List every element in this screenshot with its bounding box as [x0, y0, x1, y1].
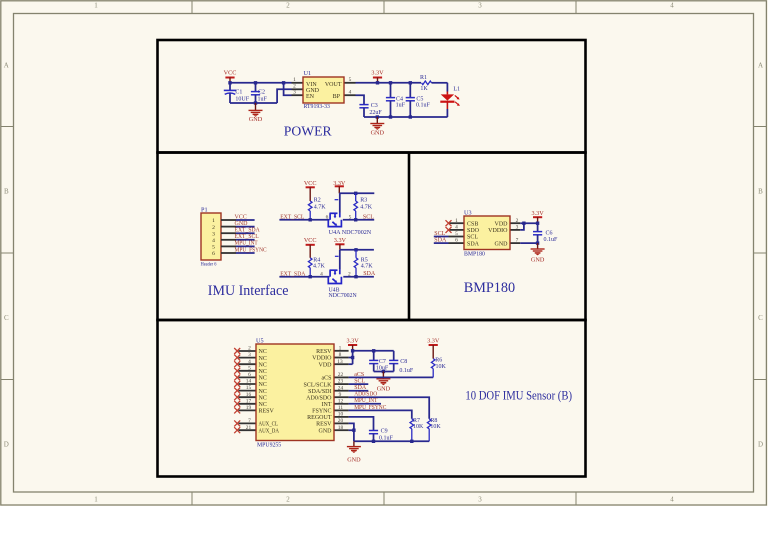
node gnd stem caps	[382, 370, 385, 373]
wire gate drop U4A	[339, 193, 341, 212]
svg-text:23: 23	[338, 379, 344, 385]
svg-text:NC: NC	[259, 402, 267, 408]
svg-text:0.1uF: 0.1uF	[416, 103, 431, 109]
svg-text:GND: GND	[531, 257, 545, 264]
svg-text:2: 2	[248, 346, 251, 352]
divider between IMU Interface and BMP180	[408, 153, 411, 321]
svg-text:24: 24	[338, 385, 344, 391]
no-connect X marks U5 left pins	[234, 348, 240, 433]
svg-text:9: 9	[339, 392, 342, 398]
svg-text:10UF: 10UF	[235, 96, 249, 102]
power port 3.3V R6	[427, 338, 440, 359]
svg-text:C3: C3	[371, 103, 378, 109]
wire SCL	[343, 219, 374, 221]
svg-text:1K: 1K	[420, 86, 428, 92]
svg-text:0.1uF: 0.1uF	[544, 237, 559, 243]
node GND BMP	[536, 241, 539, 244]
resistor R7 10K	[410, 418, 424, 442]
capacitor C4 1uF	[386, 83, 406, 117]
node R3 bottom	[354, 218, 357, 221]
ground POWER right	[370, 117, 384, 136]
label U4B	[329, 287, 358, 299]
svg-text:5: 5	[349, 214, 352, 220]
svg-text:BP: BP	[333, 94, 341, 100]
svg-text:AD0/SDO: AD0/SDO	[306, 395, 332, 401]
wire GND pin branch	[277, 89, 291, 103]
resistor R4 4.7K	[308, 257, 325, 276]
node C5 bottom	[409, 115, 412, 118]
svg-text:6: 6	[455, 238, 458, 244]
svg-text:C: C	[758, 314, 763, 322]
regulator U1 RT9193-33	[292, 70, 356, 110]
node C4 top	[389, 81, 392, 84]
svg-text:GND: GND	[495, 241, 509, 247]
power port 3.3V lower	[334, 237, 347, 250]
wire SCL BMP	[434, 236, 449, 238]
svg-text:R3: R3	[360, 197, 367, 203]
svg-text:2: 2	[286, 2, 290, 10]
svg-text:15: 15	[246, 385, 252, 391]
svg-text:3: 3	[212, 231, 215, 237]
svg-text:C6: C6	[546, 230, 553, 236]
power port 3.3V upper	[333, 180, 346, 193]
svg-text:3: 3	[293, 90, 296, 96]
chip U3 BMP180	[449, 209, 521, 257]
wire VDDIO join	[520, 223, 524, 230]
svg-text:NDC7002N: NDC7002N	[329, 293, 358, 299]
svg-text:NC: NC	[259, 389, 267, 395]
svg-text:MPU_INT: MPU_INT	[354, 398, 377, 404]
svg-text:6: 6	[212, 251, 215, 257]
node R2 bottom	[309, 218, 312, 221]
power port VCC	[224, 70, 237, 83]
svg-text:3: 3	[478, 496, 482, 504]
svg-text:VCC: VCC	[304, 237, 317, 244]
svg-text:1uF: 1uF	[258, 96, 268, 102]
power port VCC upper	[304, 180, 317, 201]
svg-text:A: A	[758, 62, 763, 70]
svg-text:4: 4	[349, 90, 352, 96]
header P1 Header 6	[201, 206, 236, 267]
svg-text:4: 4	[455, 225, 458, 231]
capacitor C9 0.1uF	[369, 429, 394, 442]
svg-text:10K: 10K	[413, 424, 424, 430]
power port VCC lower	[304, 237, 317, 258]
svg-text:MPU_INT: MPU_INT	[235, 241, 258, 247]
resistor R8 10K	[427, 418, 441, 442]
wire MPU_INT stub	[349, 403, 381, 405]
svg-text:EXT_SCL: EXT_SCL	[280, 214, 305, 220]
svg-text:RESV: RESV	[316, 422, 332, 428]
svg-text:BMP180: BMP180	[464, 280, 516, 296]
svg-text:4.7K: 4.7K	[361, 263, 374, 269]
capacitor C8 0.1uF	[389, 351, 414, 374]
transistor U4B NDC7002N	[328, 269, 341, 283]
svg-text:aCS: aCS	[354, 372, 364, 378]
svg-text:B: B	[4, 188, 9, 196]
ground BMP	[531, 243, 545, 263]
svg-text:EN: EN	[306, 94, 315, 100]
svg-text:NC: NC	[259, 395, 267, 401]
node GND stem	[376, 115, 379, 118]
svg-text:1: 1	[455, 218, 458, 224]
node C9 bottom	[372, 440, 375, 443]
middle block outline	[158, 153, 586, 321]
svg-text:4: 4	[212, 238, 215, 244]
wire VDD to 3.3V	[520, 222, 537, 224]
svg-text:AD0/SDO: AD0/SDO	[354, 392, 378, 398]
svg-text:C7: C7	[379, 359, 386, 365]
svg-text:3.3V: 3.3V	[427, 338, 440, 345]
resistor R2 4.7K	[308, 197, 326, 219]
svg-text:MPU9255: MPU9255	[257, 443, 281, 449]
wire SDA	[343, 276, 374, 278]
no-connect X pin 4	[446, 227, 452, 233]
wire MPU_FSYNC to R7	[349, 410, 412, 418]
svg-text:GND: GND	[377, 385, 391, 392]
svg-text:NC: NC	[259, 356, 267, 362]
svg-text:SDA/SDI: SDA/SDI	[308, 389, 331, 395]
svg-text:2: 2	[348, 271, 351, 277]
svg-text:VDDIO: VDDIO	[312, 356, 332, 362]
svg-text:22uF: 22uF	[369, 110, 382, 116]
svg-text:VDD: VDD	[319, 362, 333, 368]
wire 3.3V rail lower	[340, 249, 374, 251]
svg-text:SCL: SCL	[467, 235, 478, 241]
svg-text:3: 3	[248, 352, 251, 358]
transistor U4A NDC7002N	[328, 213, 341, 227]
svg-text:3.3V: 3.3V	[531, 210, 544, 217]
svg-text:U3: U3	[464, 209, 472, 216]
node pin8	[351, 356, 354, 359]
svg-text:10K: 10K	[436, 364, 447, 370]
node C2 top	[254, 81, 257, 84]
svg-text:U4A NDC7002N: U4A NDC7002N	[329, 230, 372, 236]
svg-text:GND: GND	[347, 457, 361, 464]
node R4 bottom	[309, 275, 312, 278]
svg-text:D: D	[758, 441, 763, 449]
svg-text:22: 22	[338, 372, 344, 378]
svg-text:VCC: VCC	[304, 180, 317, 187]
svg-text:3: 3	[516, 225, 519, 231]
svg-text:C8: C8	[400, 359, 407, 365]
capacitor C3 22uF on BP	[356, 95, 383, 117]
wire SDA BMP	[434, 242, 449, 244]
ground caps U5	[376, 372, 390, 393]
capacitor C7 10uF	[369, 351, 389, 372]
svg-text:2: 2	[516, 218, 519, 224]
svg-text:INT: INT	[322, 402, 332, 408]
svg-text:R1: R1	[420, 75, 427, 81]
chip U5 MPU9255	[239, 337, 349, 448]
svg-text:5: 5	[455, 231, 458, 237]
svg-text:GND: GND	[371, 129, 385, 136]
node pin1	[351, 349, 354, 352]
svg-text:2: 2	[286, 496, 290, 504]
svg-text:7: 7	[248, 418, 251, 424]
node R5 bottom	[354, 275, 357, 278]
svg-text:C2: C2	[258, 89, 265, 95]
svg-text:BMP180: BMP180	[464, 252, 485, 258]
svg-text:SDA: SDA	[363, 271, 376, 277]
svg-text:GND: GND	[235, 221, 249, 227]
svg-text:1: 1	[94, 496, 98, 504]
node R7 bottom	[410, 440, 413, 443]
svg-text:11: 11	[338, 405, 343, 411]
bottom block outline	[158, 320, 586, 477]
resistor R1 1K	[420, 75, 448, 92]
svg-text:7: 7	[516, 238, 519, 244]
wire VOUT rail	[356, 82, 422, 84]
power port 3.3V BMP	[531, 210, 544, 223]
gate tick U4B	[335, 255, 339, 257]
svg-text:19: 19	[246, 405, 252, 411]
svg-text:EXT_SDA: EXT_SDA	[235, 228, 261, 234]
svg-text:4: 4	[670, 496, 674, 504]
wire 3.3V rail upper	[339, 192, 374, 194]
wire bottom rail right	[364, 116, 448, 118]
svg-text:RT9193-33: RT9193-33	[304, 104, 330, 110]
gate tick U4A	[335, 199, 339, 201]
wire bottom gnd rail U5	[354, 440, 429, 442]
svg-text:13: 13	[337, 359, 343, 365]
node C2 bottom	[254, 101, 257, 104]
svg-text:AUX_CL: AUX_CL	[259, 422, 279, 428]
svg-text:4.7K: 4.7K	[314, 205, 327, 211]
svg-text:5: 5	[212, 245, 215, 251]
svg-text:AUX_DA: AUX_DA	[259, 428, 280, 434]
svg-text:Header 6: Header 6	[201, 261, 217, 267]
capacitor C6 0.1uF	[533, 223, 558, 243]
ground under C2	[249, 103, 263, 123]
wire EXT_SDA	[279, 276, 329, 278]
no-connect X pin 1	[446, 220, 452, 226]
svg-text:6: 6	[248, 372, 251, 378]
wire bottom rail left	[230, 102, 277, 104]
svg-text:IMU Interface: IMU Interface	[208, 283, 289, 299]
svg-text:1: 1	[293, 77, 296, 83]
resistor R6 10K	[431, 358, 446, 378]
svg-text:1: 1	[212, 218, 215, 224]
svg-text:0.1uF: 0.1uF	[399, 368, 414, 374]
svg-text:17: 17	[246, 398, 252, 404]
svg-text:GND: GND	[249, 116, 263, 123]
power port 3.3V U5	[346, 338, 359, 351]
wire gate drop U4B	[339, 250, 341, 270]
svg-text:NC: NC	[259, 376, 267, 382]
svg-text:RESV: RESV	[316, 349, 332, 355]
wire SCL stub	[349, 383, 369, 385]
node pin18/20	[352, 429, 355, 432]
node C7 top	[372, 349, 375, 352]
svg-text:R2: R2	[314, 197, 321, 203]
svg-text:GND: GND	[319, 428, 333, 434]
svg-text:VDDIO: VDDIO	[488, 228, 508, 234]
svg-text:1: 1	[94, 2, 98, 10]
wire AD0/SDO to R8	[349, 397, 430, 419]
node C4 bottom	[389, 115, 392, 118]
svg-text:POWER: POWER	[284, 124, 332, 139]
node C5 top	[409, 81, 412, 84]
svg-text:3.3V: 3.3V	[371, 70, 384, 77]
svg-text:10K: 10K	[430, 424, 441, 430]
power port 3.3V	[371, 70, 384, 83]
svg-text:SCL: SCL	[363, 214, 374, 220]
svg-text:SCL/SCLK: SCL/SCLK	[303, 382, 332, 388]
svg-text:4.7K: 4.7K	[313, 263, 326, 269]
svg-text:SDA: SDA	[354, 385, 367, 391]
svg-text:L1: L1	[453, 86, 460, 92]
wire top rail VCC	[230, 82, 292, 84]
svg-text:2: 2	[212, 225, 215, 231]
svg-text:aCS: aCS	[321, 376, 331, 382]
svg-text:10: 10	[338, 412, 344, 418]
svg-text:8: 8	[339, 352, 342, 358]
svg-text:VDD: VDD	[495, 221, 509, 227]
svg-text:FSYNC: FSYNC	[312, 409, 331, 415]
wire EN branch	[284, 83, 292, 95]
svg-text:16: 16	[246, 392, 252, 398]
capacitor C1 10UF polarized	[224, 83, 250, 103]
LED L1	[440, 83, 460, 117]
svg-text:MPU_FSYNC: MPU_FSYNC	[235, 247, 267, 253]
POWER block outline	[158, 40, 586, 153]
svg-text:5: 5	[248, 365, 251, 371]
svg-text:C9: C9	[381, 429, 388, 435]
svg-text:12: 12	[338, 398, 344, 404]
node VDD/VDDIO	[522, 222, 525, 225]
svg-text:NC: NC	[259, 382, 267, 388]
wire EXT_SCL	[279, 219, 329, 221]
svg-text:3.3V: 3.3V	[346, 338, 359, 345]
svg-text:R6: R6	[435, 358, 442, 364]
wire VDD chain	[349, 351, 353, 364]
svg-text:VCC: VCC	[235, 214, 247, 220]
svg-text:5: 5	[349, 77, 352, 83]
svg-text:B: B	[758, 188, 763, 196]
svg-text:SCL: SCL	[354, 379, 365, 385]
svg-text:3.3V: 3.3V	[334, 237, 347, 244]
svg-text:4: 4	[670, 2, 674, 10]
resistor R3 4.7K	[354, 193, 373, 220]
svg-text:18: 18	[338, 425, 344, 431]
resistor R5 4.7K	[354, 250, 373, 277]
ground U5	[347, 441, 361, 463]
svg-text:R7: R7	[413, 418, 420, 424]
svg-text:VCC: VCC	[224, 70, 237, 77]
wire GND pin BMP	[520, 242, 537, 244]
svg-text:NC: NC	[259, 369, 267, 375]
svg-text:C: C	[4, 314, 9, 322]
svg-text:4: 4	[320, 271, 323, 277]
capacitor C2 1uF	[251, 83, 268, 103]
node C1 top	[228, 81, 231, 84]
capacitor C5 0.1uF	[406, 83, 431, 117]
svg-text:U1: U1	[304, 70, 312, 77]
svg-text:10 DOF IMU Sensor (B): 10 DOF IMU Sensor (B)	[465, 388, 572, 403]
wire cap bottom rail	[374, 371, 394, 373]
svg-text:D: D	[4, 441, 9, 449]
svg-text:6: 6	[326, 214, 329, 220]
svg-text:C1: C1	[235, 89, 242, 95]
svg-text:4.7K: 4.7K	[360, 205, 373, 211]
svg-text:U5: U5	[256, 337, 264, 344]
wire SDA stub	[349, 390, 369, 392]
svg-text:MPU_FSYNC: MPU_FSYNC	[354, 405, 386, 411]
node C6 top	[536, 222, 539, 225]
svg-text:RESV: RESV	[259, 409, 275, 415]
node 3.3V	[376, 81, 379, 84]
node EN branch	[282, 81, 285, 84]
svg-text:1: 1	[339, 345, 342, 351]
node R3 top	[354, 192, 357, 195]
wire GND18 drop	[349, 430, 354, 441]
svg-text:SCL: SCL	[434, 231, 445, 237]
net labels header	[235, 214, 267, 253]
wire REGOUT to C9	[349, 417, 374, 431]
svg-text:1uF: 1uF	[396, 103, 406, 109]
svg-text:NC: NC	[259, 349, 267, 355]
svg-text:20: 20	[338, 418, 344, 424]
svg-text:NC: NC	[259, 362, 267, 368]
svg-text:SDA: SDA	[434, 238, 447, 244]
svg-text:14: 14	[246, 379, 252, 385]
wire RESV20 to GND18	[349, 423, 354, 430]
svg-text:3: 3	[478, 2, 482, 10]
svg-text:SDO: SDO	[467, 228, 480, 234]
svg-text:EXT_SCL: EXT_SCL	[235, 234, 260, 240]
svg-text:CSB: CSB	[467, 221, 478, 227]
svg-text:REGOUT: REGOUT	[307, 415, 332, 421]
svg-text:VOUT: VOUT	[325, 82, 342, 88]
svg-text:R8: R8	[430, 418, 437, 424]
wires header P1	[236, 220, 255, 253]
node R5 top	[354, 248, 357, 251]
wire aCS to R6	[349, 376, 434, 378]
svg-text:EXT_SDA: EXT_SDA	[280, 271, 306, 277]
wire cap top rail	[353, 350, 394, 352]
svg-text:4: 4	[248, 359, 251, 365]
svg-text:P1: P1	[201, 206, 208, 213]
svg-text:21: 21	[246, 425, 252, 431]
svg-text:SDA: SDA	[467, 241, 480, 247]
svg-text:A: A	[4, 62, 9, 70]
